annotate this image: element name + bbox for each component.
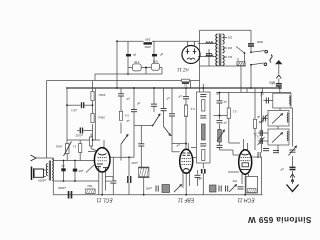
svg-text:µ0,02: µ0,02 xyxy=(75,133,82,137)
svg-text:µF: µF xyxy=(126,119,130,123)
svg-text:5000: 5000 xyxy=(257,40,263,44)
svg-text:µF: µF xyxy=(223,121,226,125)
svg-text:700: 700 xyxy=(232,179,237,183)
svg-text:70Ω: 70Ω xyxy=(88,184,93,188)
svg-text:µF: µF xyxy=(253,132,256,136)
svg-text:µF: µF xyxy=(176,143,180,147)
svg-text:µF: µF xyxy=(61,164,65,168)
svg-text:ECL 11: ECL 11 xyxy=(96,197,112,203)
svg-text:µ0,1: µ0,1 xyxy=(71,108,77,112)
svg-text:µ100: µ100 xyxy=(145,186,152,190)
svg-text:220: 220 xyxy=(227,36,232,40)
svg-text:EBF 11: EBF 11 xyxy=(178,197,194,203)
svg-text:µF: µF xyxy=(133,53,137,57)
svg-text:µF: µF xyxy=(280,167,284,171)
svg-text:0,1: 0,1 xyxy=(190,107,194,111)
svg-text:ECH 11: ECH 11 xyxy=(237,197,254,203)
svg-text:20kΩ: 20kΩ xyxy=(99,93,106,97)
svg-text:0,1: 0,1 xyxy=(183,84,187,87)
svg-text:µ100: µ100 xyxy=(131,161,138,165)
svg-text:µ5000: µ5000 xyxy=(38,178,46,182)
svg-text:µF: µF xyxy=(223,100,227,104)
svg-text:150: 150 xyxy=(227,46,232,50)
svg-text:µF: µF xyxy=(137,101,141,105)
svg-text:AZ 11: AZ 11 xyxy=(177,67,190,72)
svg-text:20W: 20W xyxy=(145,45,151,49)
svg-text:µF: µF xyxy=(166,96,170,100)
svg-text:µF: µF xyxy=(271,81,274,85)
svg-text:µF: µF xyxy=(126,97,130,101)
svg-text:µ1000: µ1000 xyxy=(58,186,66,190)
svg-text:µF: µF xyxy=(257,115,260,119)
svg-text:µF: µF xyxy=(198,177,202,181)
svg-text:µF: µF xyxy=(178,94,182,98)
svg-text:1MΩ: 1MΩ xyxy=(56,144,62,148)
svg-text:0,3: 0,3 xyxy=(125,113,129,117)
svg-text:0,1: 0,1 xyxy=(72,145,76,148)
svg-text:Si: Si xyxy=(236,57,239,61)
svg-text:µF: µF xyxy=(160,52,164,56)
svg-text:0,02: 0,02 xyxy=(152,59,158,63)
svg-text:300: 300 xyxy=(145,38,150,42)
svg-text:70k: 70k xyxy=(258,120,263,124)
svg-text:Sinfonia 659 W: Sinfonia 659 W xyxy=(248,215,312,224)
svg-text:0,1: 0,1 xyxy=(232,109,236,113)
svg-text:µ50: µ50 xyxy=(78,169,83,173)
svg-text:0,05: 0,05 xyxy=(134,60,140,64)
svg-text:110: 110 xyxy=(227,55,232,59)
svg-text:20kΩ: 20kΩ xyxy=(98,115,105,119)
